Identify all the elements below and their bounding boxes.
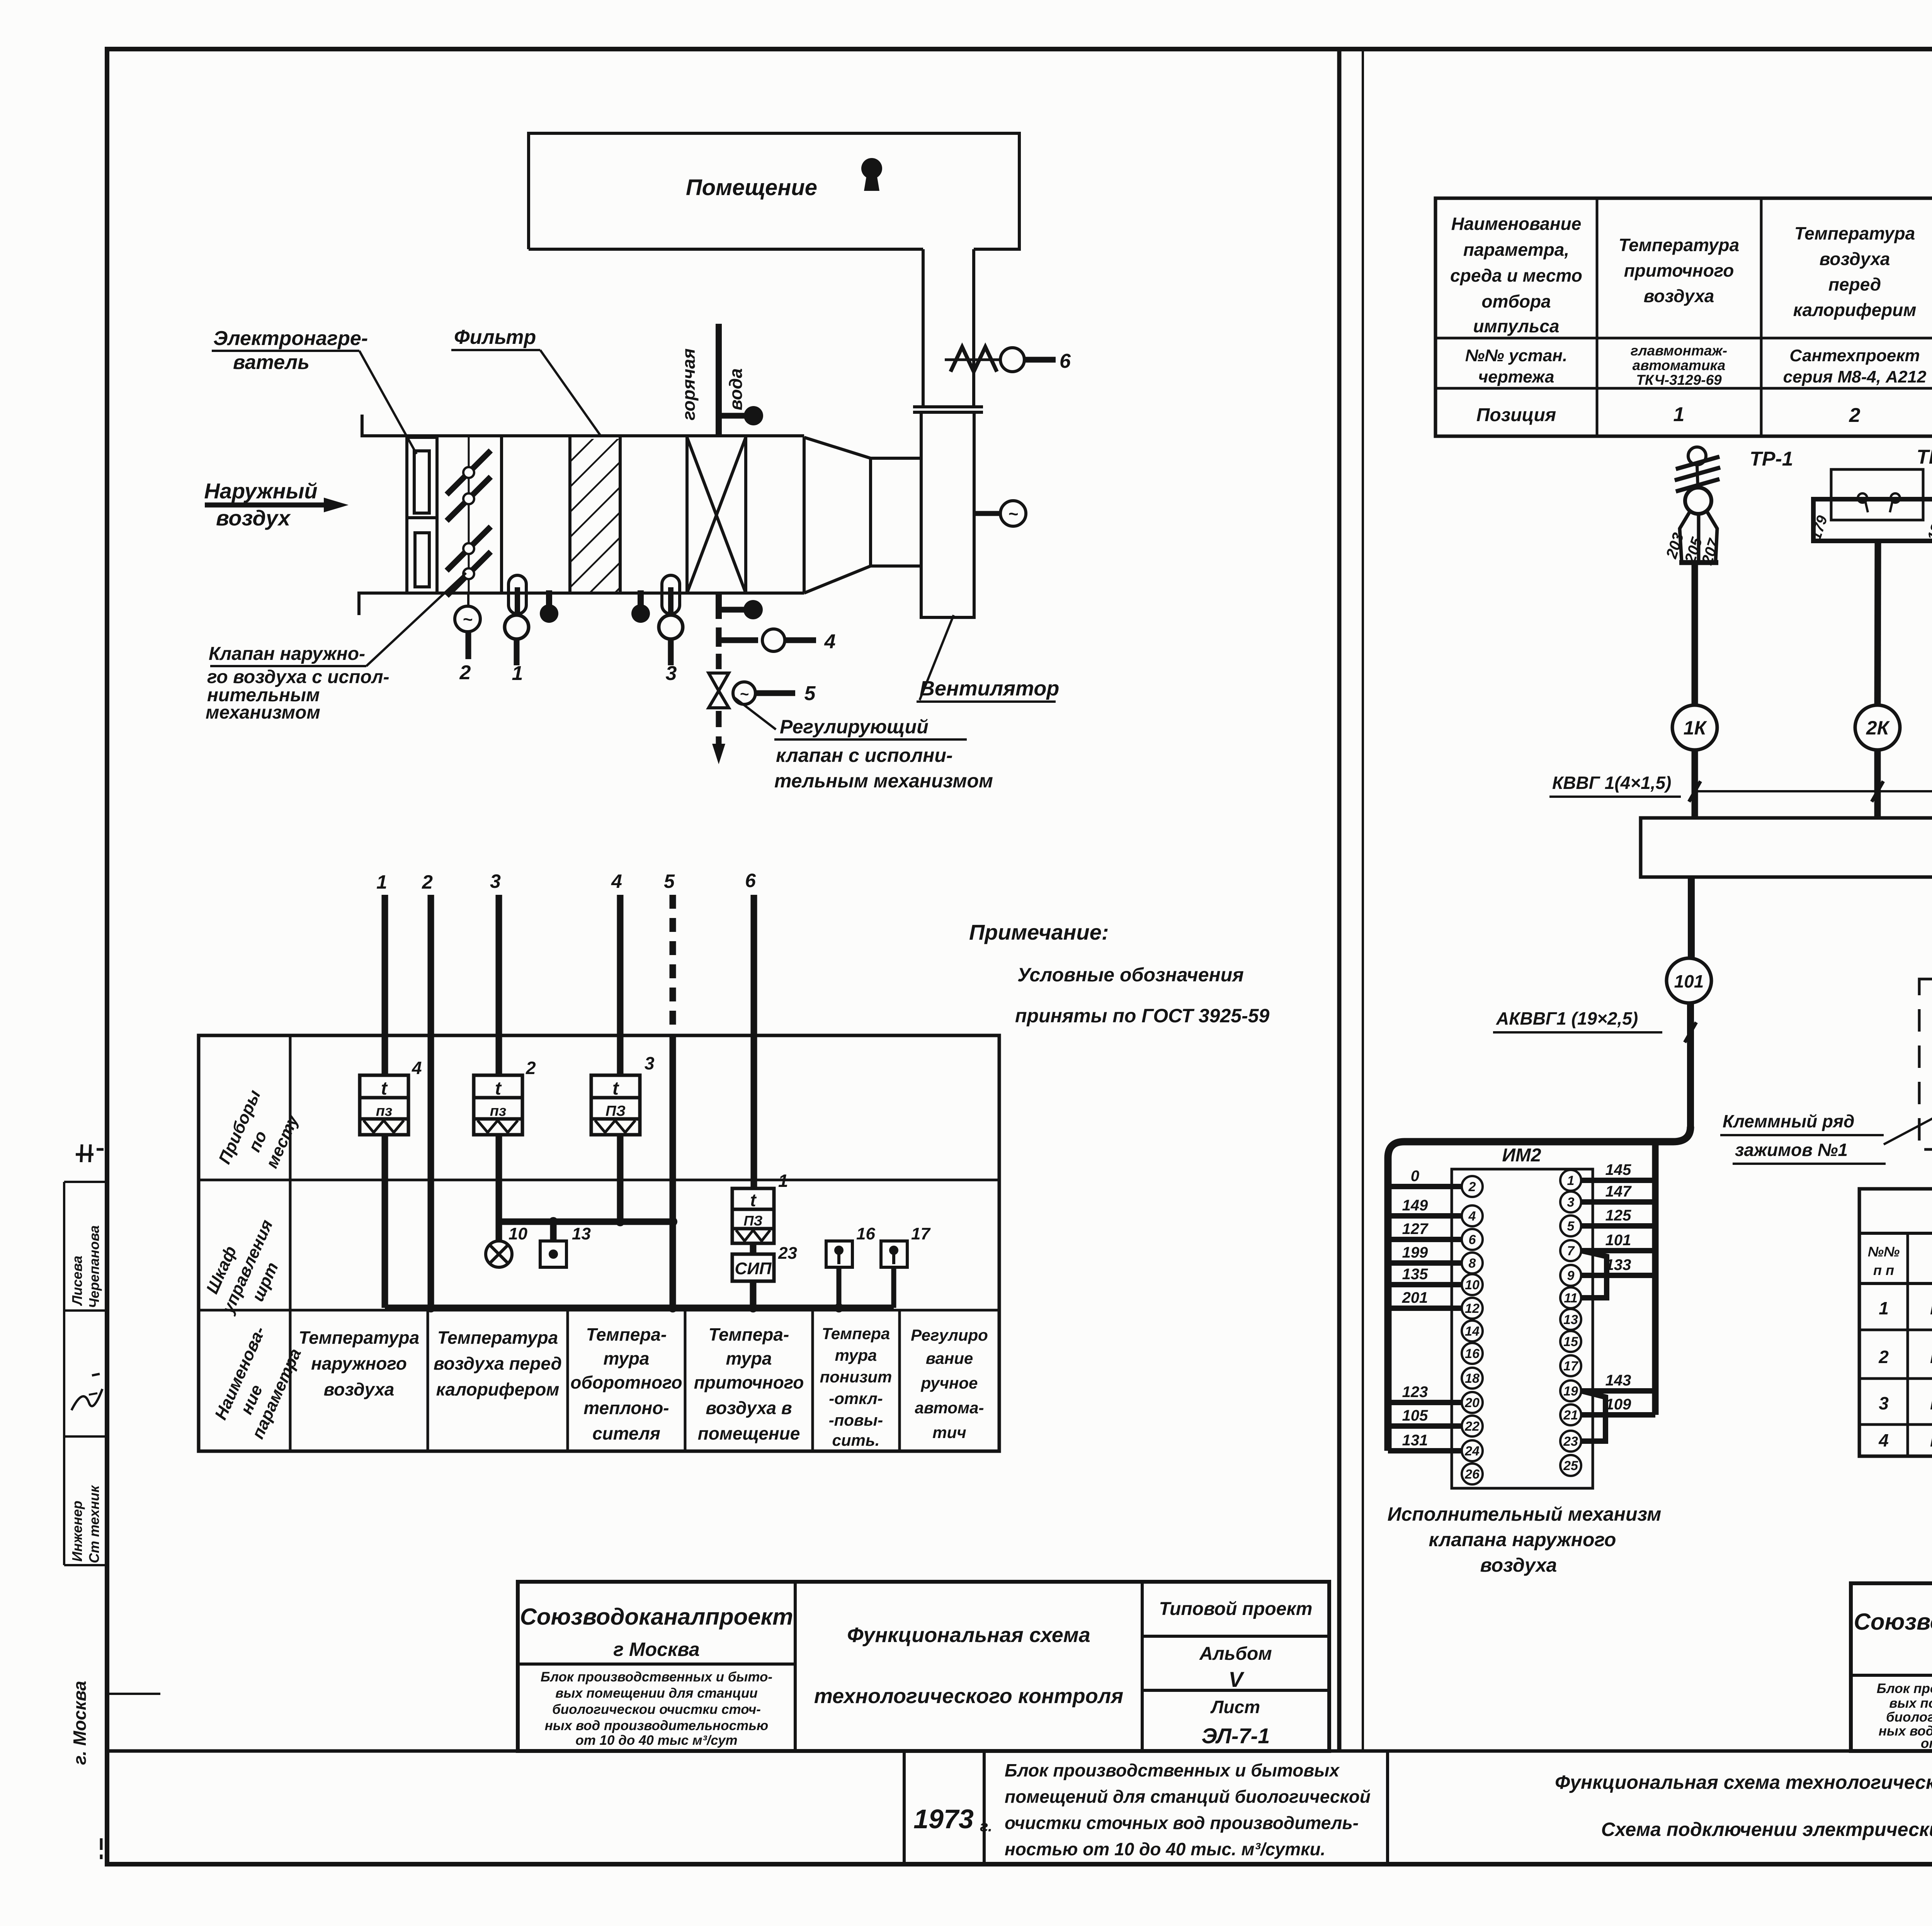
heater column box: [407, 437, 437, 593]
svg-text:Провод алюминиевый: Провод алюминиевый: [1930, 1393, 1932, 1413]
svg-text:Регулирующий: Регулирующий: [780, 716, 929, 738]
svg-text:приточного: приточного: [1624, 260, 1734, 280]
svg-text:Сантехпроект: Сантехпроект: [1789, 346, 1920, 365]
svg-text:Фильтр: Фильтр: [454, 326, 536, 348]
svg-text:9: 9: [1567, 1268, 1575, 1283]
control valve label with leader: [733, 696, 967, 739]
svg-text:4: 4: [412, 1058, 422, 1078]
svg-text:Наружный: Наружный: [204, 479, 317, 503]
bottom title strip top line: [107, 1749, 1932, 1753]
svg-text:3: 3: [490, 870, 501, 892]
svg-text:5: 5: [1567, 1219, 1575, 1234]
svg-text:Инженер: Инженер: [69, 1501, 85, 1562]
wire 2: [428, 895, 434, 1308]
svg-text:13: 13: [1563, 1312, 1578, 1327]
indicator box 13: [540, 1241, 566, 1267]
instrument box 4 (t/ПЗ): [360, 1075, 408, 1135]
svg-text:23: 23: [1563, 1434, 1578, 1449]
svg-text:14: 14: [1465, 1324, 1480, 1339]
svg-text:109: 109: [1605, 1396, 1631, 1413]
svg-text:ИМ2: ИМ2: [1502, 1145, 1541, 1166]
svg-text:воздуха в: воздуха в: [706, 1398, 792, 1418]
margin signature squiggle: [71, 1389, 102, 1410]
svg-text:135: 135: [1402, 1266, 1428, 1283]
svg-text:Альбом: Альбом: [1199, 1644, 1272, 1664]
svg-text:воздуха: воздуха: [1644, 286, 1714, 306]
svg-text:от 10 до 40т м³/сут: от 10 до 40т м³/сут: [1921, 1736, 1932, 1751]
svg-text:№№ устан.: №№ устан.: [1465, 346, 1567, 365]
svg-text:Схема подключении электричес: Схема подключении электрических проводок…: [1601, 1819, 1932, 1840]
louver blades: [447, 450, 491, 596]
svg-text:15: 15: [1563, 1334, 1578, 1349]
svg-text:3: 3: [666, 662, 677, 685]
IM2 right bus drop: [1652, 1142, 1659, 1415]
svg-text:приточного: приточного: [694, 1372, 804, 1392]
svg-text:Блок производственных и быто-: Блок производственных и быто-: [541, 1669, 772, 1685]
svg-text:1: 1: [1673, 403, 1685, 426]
svg-text:Блок производственных и быто: Блок производственных и быто: [1877, 1681, 1932, 1696]
svg-text:26: 26: [1464, 1467, 1480, 1482]
cable slashes: [1689, 781, 1932, 802]
svg-text:~: ~: [740, 686, 748, 703]
main cable bend to IM2 buses: [1388, 1127, 1690, 1451]
svg-text:воздуха перед: воздуха перед: [434, 1353, 562, 1374]
svg-text:22: 22: [1464, 1419, 1480, 1434]
svg-text:Союзводоканалпроект: Союзводоканалпроект: [520, 1604, 793, 1630]
bottom strip cell dividers: [903, 1751, 906, 1864]
svg-text:Температура: Температура: [1619, 235, 1739, 255]
svg-text:~: ~: [1008, 505, 1018, 524]
left margin stamp column: [63, 1182, 65, 1565]
svg-text:Помещение: Помещение: [686, 175, 817, 200]
svg-text:помещение: помещение: [698, 1423, 800, 1443]
svg-text:ТКЧ-3129-69: ТКЧ-3129-69: [1636, 372, 1722, 388]
svg-text:131: 131: [1402, 1432, 1428, 1449]
svg-text:1973: 1973: [913, 1804, 974, 1834]
svg-text:Кабель контрольный: Кабель контрольный: [1930, 1430, 1932, 1450]
svg-text:4: 4: [1468, 1209, 1476, 1224]
svg-text:Позиция: Позиция: [1476, 405, 1556, 425]
cable marker circle 2K: [1855, 705, 1900, 750]
IM2 left pin wires: [1388, 1187, 1462, 1451]
louver axis: [468, 437, 470, 593]
sensor 4 tap with circle: [719, 627, 816, 651]
svg-text:ТР-1: ТР-1: [1750, 448, 1793, 470]
svg-text:10: 10: [509, 1224, 527, 1243]
svg-text:1: 1: [1879, 1298, 1889, 1318]
row header: parameter name (rotated): [210, 1324, 307, 1442]
svg-text:воздуха: воздуха: [1480, 1554, 1557, 1576]
heater coil sensor 6: [945, 347, 1056, 372]
svg-text:1: 1: [512, 662, 523, 685]
svg-text:143: 143: [1605, 1372, 1631, 1389]
svg-text:Наименование: Наименование: [1451, 214, 1582, 234]
svg-text:воздух: воздух: [216, 506, 291, 530]
svg-text:пз: пз: [490, 1103, 507, 1119]
svg-text:среда и место: среда и место: [1450, 265, 1582, 286]
svg-text:тура: тура: [726, 1348, 772, 1368]
svg-text:Функциональная схема: Функциональная схема: [847, 1623, 1090, 1647]
IM2 right wire labels: [1605, 1161, 1632, 1413]
sensor TP-2: [1813, 469, 1932, 541]
svg-text:t: t: [495, 1078, 502, 1099]
junction dots: [426, 1217, 844, 1312]
svg-text:биологическои очистки сточ-: биологическои очистки сточ-: [1886, 1710, 1932, 1725]
svg-text:вание: вание: [926, 1349, 973, 1367]
svg-text:ных вод производительностью: ных вод производительностью: [545, 1718, 769, 1733]
svg-text:145: 145: [1605, 1161, 1631, 1178]
svg-text:импульса: импульса: [1473, 316, 1560, 336]
svg-text:воздуха: воздуха: [1820, 249, 1890, 269]
svg-text:2: 2: [1878, 1347, 1889, 1367]
wire 6: [751, 895, 757, 1188]
signal lamp 10: [486, 1241, 512, 1267]
margin reference marks: [76, 1153, 94, 1156]
svg-text:ПЗ: ПЗ: [743, 1213, 762, 1229]
svg-text:6: 6: [1060, 350, 1071, 372]
svg-text:СИП: СИП: [735, 1259, 772, 1278]
terminal row 1 callout: [1884, 1088, 1932, 1144]
svg-text:клапан с исполни-: клапан с исполни-: [776, 745, 953, 766]
svg-text:~: ~: [463, 610, 473, 629]
svg-text:вых помещении для станции: вых помещении для станции: [1889, 1696, 1932, 1711]
instrument box 2 (t/ПЗ): [474, 1075, 522, 1135]
svg-text:ПЗ: ПЗ: [605, 1103, 626, 1119]
svg-text:t: t: [750, 1190, 757, 1210]
dashed stem to control valve: [716, 654, 722, 674]
svg-text:21: 21: [1563, 1408, 1578, 1423]
svg-text:16: 16: [856, 1224, 875, 1243]
svg-text:вода: вода: [726, 368, 746, 410]
svg-text:125: 125: [1605, 1207, 1631, 1224]
svg-text:вых помещении для станции: вых помещении для станции: [555, 1686, 758, 1701]
svg-text:127: 127: [1402, 1221, 1429, 1238]
svg-text:г. Москва: г. Москва: [70, 1681, 90, 1765]
svg-text:Примечание:: Примечание:: [969, 920, 1109, 944]
IM2 right pin wires: [1581, 1180, 1655, 1415]
svg-text:Вентилятор: Вентилятор: [920, 677, 1059, 700]
IM2 left pins: [1462, 1176, 1483, 1484]
specification table frame: [1859, 1189, 1932, 1456]
sensor 2 (motor circle under louver): [455, 593, 480, 659]
dashed exhaust arrow: [716, 711, 722, 745]
svg-text:2: 2: [422, 871, 433, 893]
svg-text:25: 25: [1563, 1459, 1578, 1473]
svg-text:Типовой проект: Типовой проект: [1159, 1599, 1313, 1619]
svg-text:1: 1: [1567, 1173, 1575, 1188]
svg-text:Союзводоканалпроект: Союзводоканалпроект: [1854, 1609, 1932, 1635]
svg-text:105: 105: [1402, 1407, 1428, 1424]
black thermometer pocket A: [546, 590, 552, 605]
thermometer above duct at pipe: [721, 413, 745, 419]
thermometer below duct at pipe: [719, 593, 744, 619]
title block object description: [541, 1669, 772, 1748]
right sheet title block: [1851, 1583, 1932, 1751]
svg-text:технологического контроля: технологического контроля: [814, 1685, 1123, 1708]
svg-text:2: 2: [459, 661, 471, 684]
svg-text:Клапан наружно-: Клапан наружно-: [209, 644, 365, 664]
IM2 jumper pin7-pin11: [1581, 1251, 1607, 1298]
svg-text:1: 1: [778, 1171, 788, 1191]
svg-text:Клеммный ряд: Клеммный ряд: [1723, 1111, 1855, 1131]
sensor 5 circle: [733, 682, 795, 704]
svg-text:19: 19: [1563, 1384, 1578, 1399]
svg-text:Регулиро: Регулиро: [911, 1326, 988, 1344]
heater elements: [414, 451, 429, 513]
instrument strip table frame: [199, 1035, 999, 1451]
wire 5 dashed top: [670, 895, 676, 1039]
svg-text:горячая: горячая: [679, 348, 699, 420]
svg-text:6: 6: [1469, 1232, 1476, 1247]
fan casing: [921, 412, 974, 617]
vertical duct to fan: [871, 249, 983, 617]
svg-text:Температура: Температура: [437, 1328, 558, 1348]
wire 4: [617, 895, 624, 1075]
duct bottom edge with lip: [359, 593, 804, 615]
svg-text:серия М8-4, А212: серия М8-4, А212: [1783, 367, 1927, 386]
svg-text:123: 123: [1402, 1384, 1428, 1401]
filter hatched band: [571, 439, 619, 592]
right title object description: [1877, 1681, 1932, 1751]
svg-text:Функциональная схема техноло: Функциональная схема технологического ко…: [1555, 1771, 1932, 1793]
svg-text:4: 4: [611, 870, 622, 892]
svg-text:тура: тура: [603, 1348, 649, 1368]
svg-text:11: 11: [1564, 1291, 1577, 1306]
svg-text:-повы-: -повы-: [829, 1411, 883, 1429]
svg-text:тельным механизмом: тельным механизмом: [774, 770, 993, 792]
svg-text:5: 5: [804, 682, 816, 705]
svg-text:7: 7: [1567, 1244, 1575, 1258]
sensor drop wires to K circles: [1695, 541, 1932, 818]
svg-text:12: 12: [1465, 1301, 1480, 1316]
svg-text:3: 3: [1879, 1393, 1889, 1413]
table header column 1: [1450, 214, 1932, 336]
margin dash mark lower left: [100, 1838, 103, 1850]
svg-text:очистки сточных вод произво: очистки сточных вод производитель-: [1005, 1813, 1359, 1833]
svg-text:20: 20: [1464, 1396, 1480, 1410]
svg-text:4: 4: [824, 631, 836, 653]
svg-text:механизмом: механизмом: [206, 702, 320, 723]
heat exchanger box with X: [685, 437, 689, 593]
bottom strip object text: [1005, 1760, 1371, 1859]
svg-text:Условные обозначения: Условные обозначения: [1017, 964, 1244, 986]
room keyhole sensor: [861, 158, 882, 191]
flow arrow: [205, 498, 349, 512]
svg-text:приняты по ГОСТ 3925-59: приняты по ГОСТ 3925-59: [1015, 1005, 1270, 1027]
wire from cabinet to 101: [1690, 877, 1691, 1130]
svg-text:Электронагре-: Электронагре-: [213, 327, 368, 350]
row header: local instruments (rotated): [215, 1087, 305, 1185]
svg-text:Лисева: Лисева: [69, 1256, 85, 1306]
svg-text:№№: №№: [1868, 1244, 1900, 1260]
svg-text:калорифером: калорифером: [436, 1379, 560, 1399]
svg-text:тич: тич: [932, 1423, 966, 1442]
svg-text:147: 147: [1605, 1183, 1632, 1200]
svg-text:3: 3: [645, 1053, 655, 1073]
svg-text:V: V: [1228, 1667, 1245, 1691]
main bottom bus: [385, 1305, 894, 1311]
fan inlet box: [871, 458, 921, 566]
svg-text:16: 16: [1465, 1346, 1480, 1361]
louver pivots: [463, 467, 474, 579]
svg-text:автоматика: автоматика: [1633, 357, 1726, 373]
shrt row sub-bus: [499, 1219, 673, 1225]
svg-text:199: 199: [1402, 1244, 1428, 1261]
svg-text:Кабель контрольный: Кабель контрольный: [1930, 1298, 1932, 1318]
svg-text:23: 23: [778, 1244, 797, 1263]
sensor 3 thermometer capsule: [659, 575, 683, 665]
svg-text:Лист: Лист: [1210, 1697, 1260, 1717]
svg-text:5: 5: [664, 870, 675, 892]
wire 3: [496, 895, 502, 1075]
left sheet title block: [518, 1582, 1329, 1751]
svg-text:го воздуха с испол-: го воздуха с испол-: [207, 667, 389, 687]
svg-text:оборотного: оборотного: [570, 1372, 682, 1392]
svg-text:6: 6: [745, 870, 756, 891]
svg-text:ватель: ватель: [233, 351, 310, 374]
svg-text:Температура: Температура: [1794, 223, 1915, 243]
instrument box 3 (t/ПЗ): [591, 1075, 640, 1135]
svg-text:2: 2: [1468, 1180, 1476, 1194]
fan motor circle: [974, 501, 1026, 526]
parameter row texts: [299, 1324, 804, 1443]
svg-text:8: 8: [1469, 1256, 1476, 1271]
key riser wires: [839, 1267, 894, 1308]
sensor TP-1: [1675, 447, 1720, 563]
svg-text:ТР-2: ТР-2: [1917, 446, 1932, 468]
row header: SHRT cabinet (rotated): [197, 1208, 297, 1326]
svg-text:17: 17: [911, 1224, 931, 1243]
svg-text:АКВВГ1 (19×2,5): АКВВГ1 (19×2,5): [1496, 1008, 1638, 1028]
svg-text:13: 13: [572, 1224, 591, 1243]
svg-text:101: 101: [1674, 971, 1704, 991]
cable marker circle 1K: [1672, 705, 1932, 750]
svg-text:201: 201: [1402, 1289, 1428, 1306]
svg-text:4: 4: [1878, 1430, 1889, 1450]
fan flange: [913, 405, 983, 408]
svg-text:понизит: понизит: [820, 1368, 892, 1386]
converging nozzle: [804, 437, 871, 593]
wire 1: [385, 895, 894, 1308]
black thermometer pocket B: [638, 590, 644, 605]
wire marker circle 101: [1667, 958, 1711, 1003]
IM2 connector box: [1452, 1169, 1593, 1488]
svg-text:ностью от 10 до 40 тыс. м³: ностью от 10 до 40 тыс. м³/сутки.: [1005, 1839, 1325, 1859]
AKVVG cable slash: [1685, 1022, 1696, 1042]
svg-text:автома-: автома-: [915, 1399, 984, 1417]
svg-text:Исполнительный механизм: Исполнительный механизм: [1388, 1503, 1662, 1525]
key switch 17: [881, 1241, 907, 1267]
IM2 right pins: [1560, 1170, 1581, 1476]
svg-text:-откл-: -откл-: [829, 1389, 883, 1408]
svg-text:2: 2: [1849, 404, 1861, 427]
SHRT cabinet box: [1641, 818, 1932, 877]
svg-text:Ст техник: Ст техник: [86, 1485, 102, 1563]
svg-text:Темпера-: Темпера-: [586, 1324, 667, 1345]
svg-text:перед: перед: [1828, 274, 1881, 294]
instrument box 1 (t/ПЗ in cabinet): [732, 1188, 774, 1243]
filter dividers: [568, 437, 571, 593]
svg-text:17: 17: [1563, 1359, 1579, 1374]
room box (Помещение): [529, 133, 1019, 249]
svg-text:тура: тура: [835, 1346, 877, 1364]
IM2 left wire labels: [1402, 1168, 1429, 1449]
svg-text:помещений для станций биоло: помещений для станций биологической: [1005, 1787, 1371, 1807]
svg-text:клапана наружного: клапана наружного: [1429, 1529, 1616, 1550]
svg-text:чертежа: чертежа: [1478, 367, 1554, 386]
right section divider: [803, 437, 806, 593]
hot water pipe: [716, 324, 722, 436]
svg-text:149: 149: [1402, 1197, 1428, 1214]
svg-text:параметра,: параметра,: [1463, 240, 1569, 260]
svg-text:18: 18: [1465, 1371, 1480, 1386]
svg-text:воздуха: воздуха: [324, 1379, 395, 1399]
svg-text:101: 101: [1605, 1232, 1631, 1249]
svg-text:калориферим: калориферим: [1793, 300, 1917, 320]
svg-text:t: t: [381, 1078, 388, 1099]
key switch 16: [826, 1241, 852, 1267]
svg-text:133: 133: [1605, 1256, 1631, 1273]
control valve symbol: [709, 673, 729, 708]
svg-text:Температура: Температура: [299, 1328, 419, 1348]
svg-text:2К: 2К: [1866, 717, 1890, 739]
svg-text:24: 24: [1464, 1444, 1480, 1459]
svg-text:КВВГ 1(4×1,5): КВВГ 1(4×1,5): [1552, 773, 1671, 793]
margin tick near title block: [107, 1693, 160, 1695]
sheet divider thin line: [1362, 49, 1364, 1751]
main duct body: [359, 415, 871, 615]
annunciator СИП 23: [732, 1254, 774, 1281]
svg-text:Провод медный: Провод медный: [1930, 1347, 1932, 1367]
outside air valve unit dashed enclosure: [1919, 979, 1932, 1149]
parameter table frame: [1435, 198, 1932, 436]
row 2 : installation drawing numbers: [1465, 346, 1932, 386]
cable run line: [1692, 790, 1932, 792]
svg-text:главмонтаж-: главмонтаж-: [1631, 343, 1727, 359]
duct top edge with lip: [362, 415, 804, 436]
svg-text:ЭЛ-7-1: ЭЛ-7-1: [1202, 1724, 1270, 1748]
svg-text:1К: 1К: [1684, 717, 1708, 739]
svg-text:Черепанова: Черепанова: [86, 1225, 102, 1308]
svg-text:0: 0: [1411, 1168, 1419, 1185]
svg-text:Блок производственных и б: Блок производственных и бытовых: [1005, 1760, 1340, 1780]
svg-text:1: 1: [376, 871, 387, 893]
svg-text:2: 2: [526, 1058, 536, 1078]
svg-text:от 10 до 40 тыс м³/сут: от 10 до 40 тыс м³/сут: [575, 1733, 737, 1748]
svg-text:п п: п п: [1873, 1262, 1894, 1278]
svg-text:зажимов №1: зажимов №1: [1735, 1140, 1848, 1160]
svg-text:сить.: сить.: [832, 1431, 880, 1449]
svg-text:Темпера: Темпера: [822, 1324, 890, 1343]
svg-text:10: 10: [1465, 1278, 1480, 1292]
svg-text:отбора: отбора: [1481, 291, 1551, 311]
svg-text:сителя: сителя: [592, 1423, 660, 1443]
svg-text:наружного: наружного: [311, 1353, 407, 1374]
louver section divider: [500, 437, 503, 593]
svg-text:г Москва: г Москва: [613, 1639, 699, 1660]
svg-text:биологическои очистки сточ-: биологическои очистки сточ-: [552, 1702, 761, 1717]
svg-text:Темпера-: Темпера-: [709, 1324, 789, 1345]
svg-text:г.: г.: [980, 1818, 992, 1835]
IM2 jumper pin19-pin23: [1581, 1391, 1605, 1441]
svg-text:ручное: ручное: [921, 1374, 978, 1392]
svg-text:3: 3: [1567, 1195, 1575, 1210]
sheet divider thick line: [1337, 49, 1342, 1751]
svg-text:t: t: [612, 1078, 619, 1099]
sensor 1 thermometer capsule: [505, 575, 529, 665]
svg-text:пз: пз: [376, 1103, 393, 1119]
svg-text:теплоно-: теплоно-: [583, 1398, 669, 1418]
